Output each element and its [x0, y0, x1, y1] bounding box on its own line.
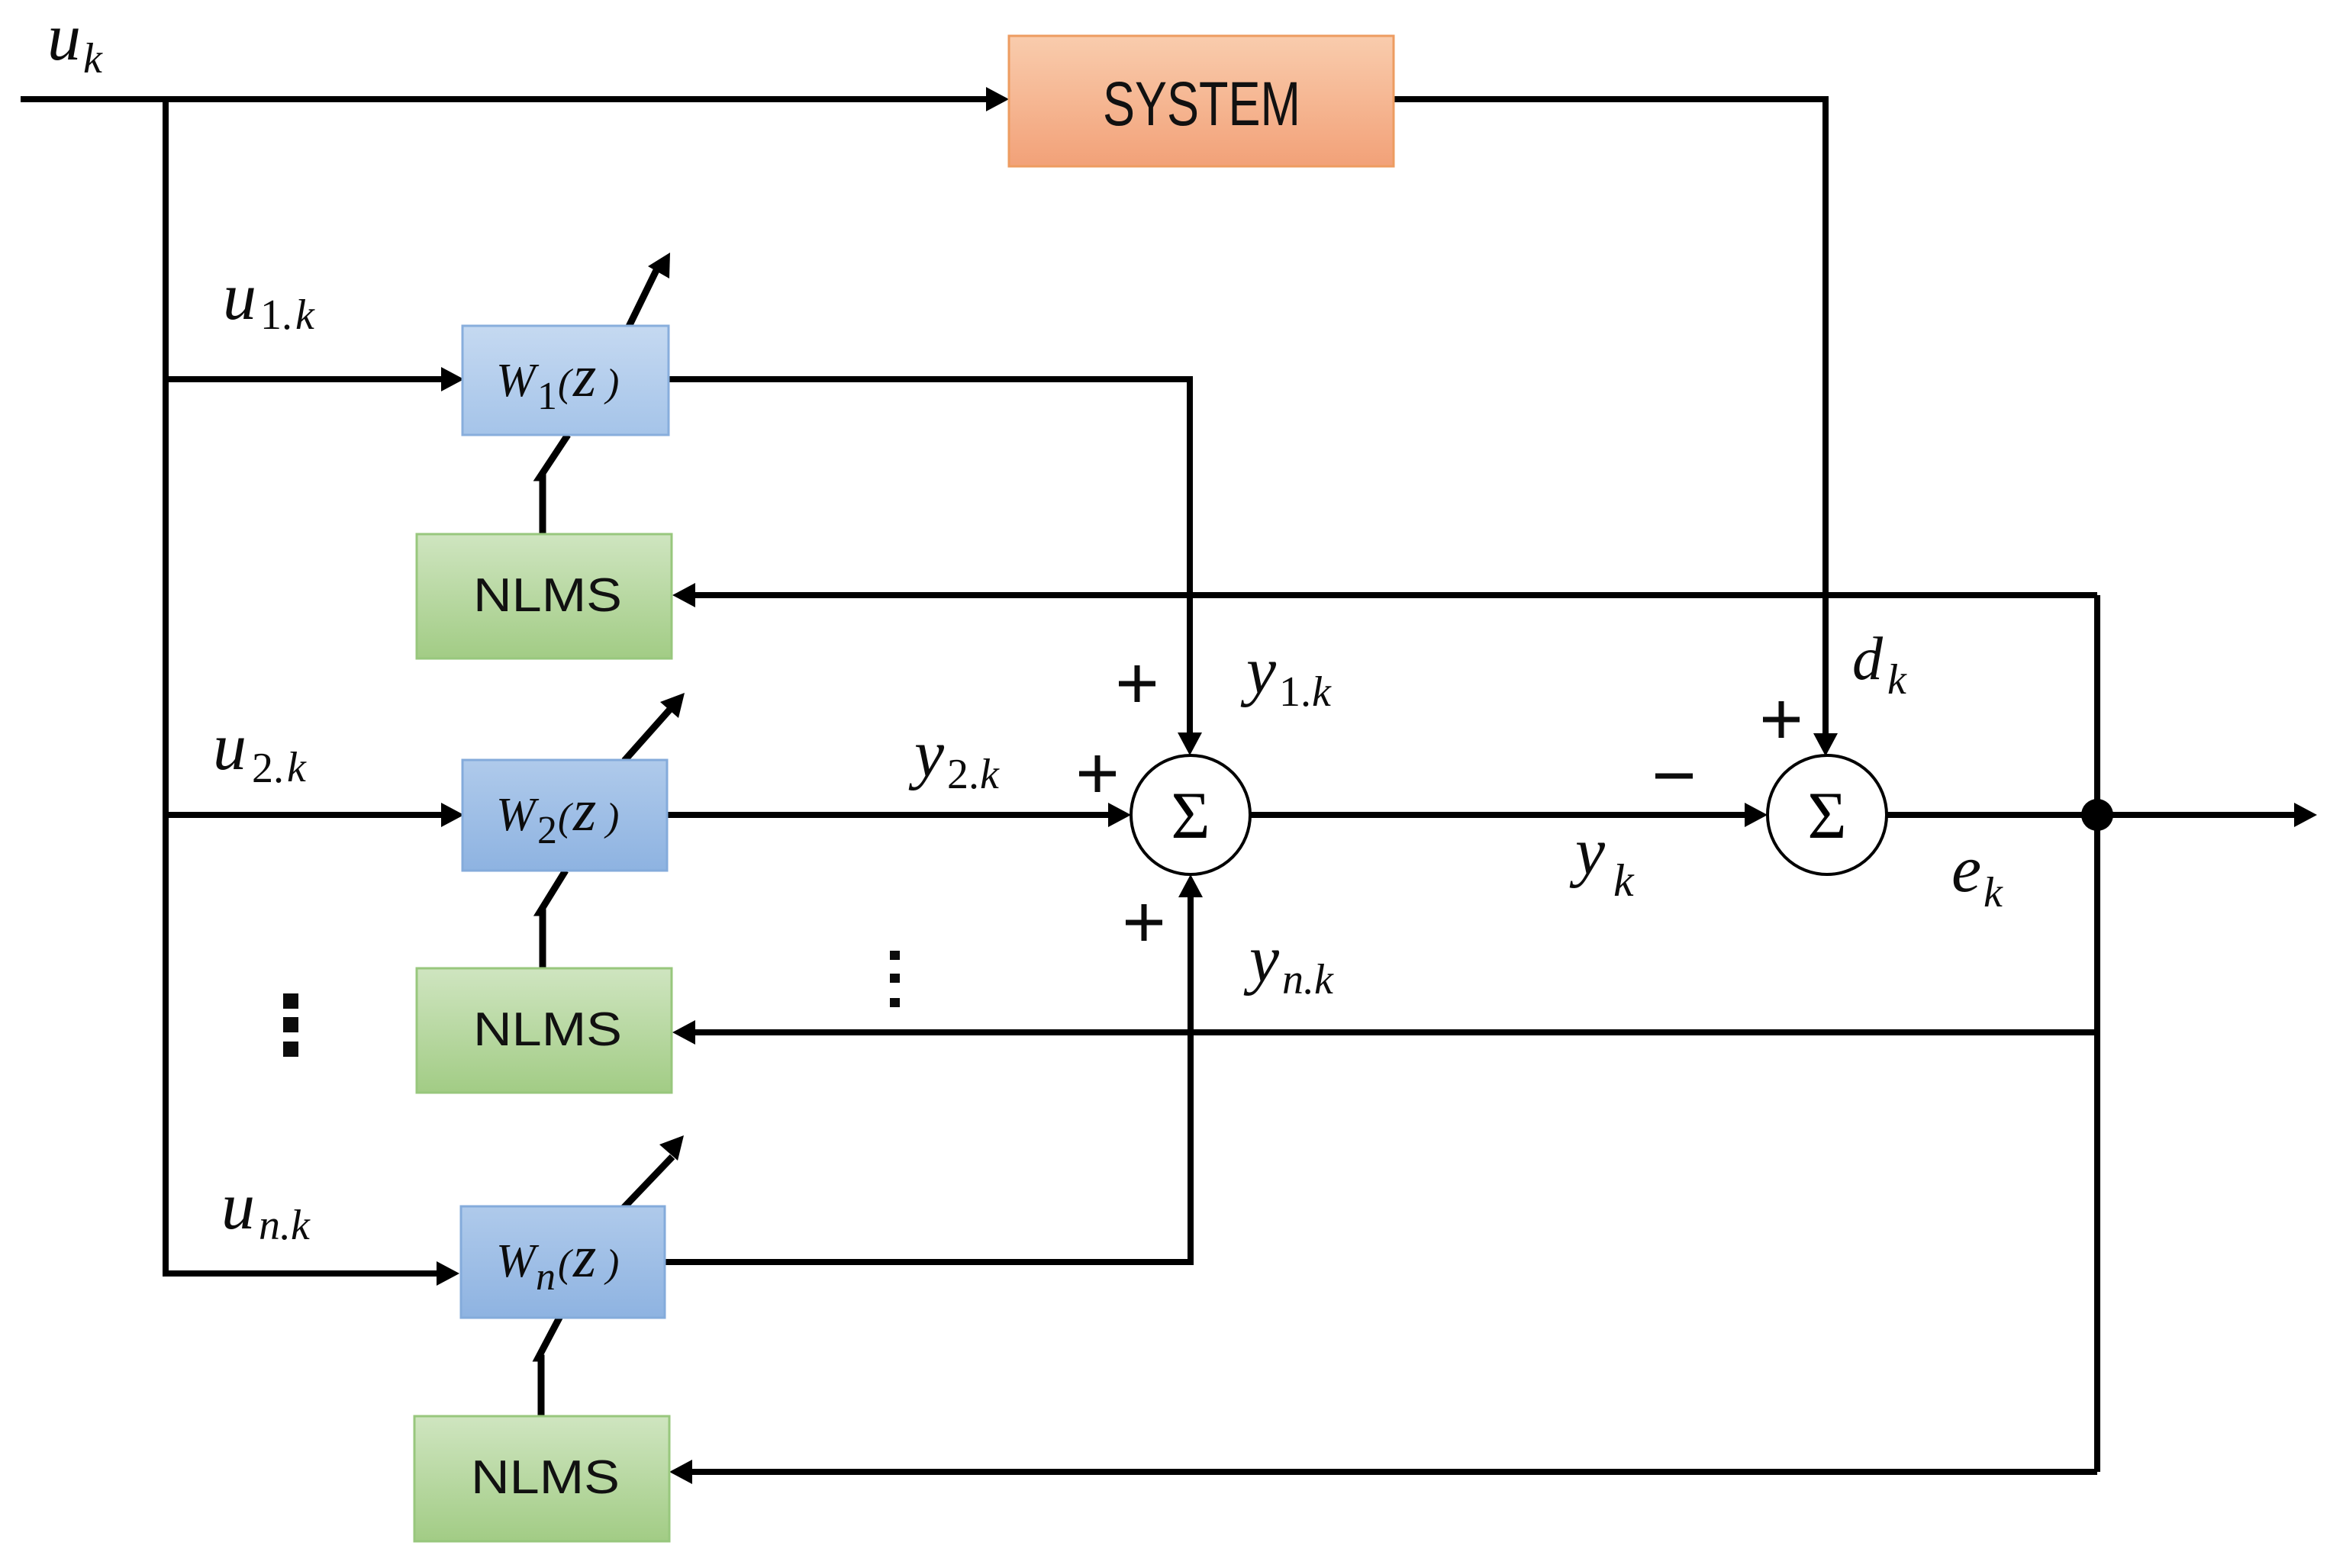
wire u_k main horizontal into SYSTEM: [21, 96, 989, 102]
svg-text:1: 1: [537, 375, 557, 418]
svg-text:y: y: [1240, 634, 1277, 708]
svg-text:): ): [604, 1242, 619, 1286]
block W1(z): [462, 326, 669, 435]
svg-text:y: y: [1243, 922, 1280, 997]
wire SYSTEM output d_k into sum S2 top: [1394, 99, 1826, 736]
svg-text:u: u: [47, 1, 81, 75]
svg-text:W: W: [496, 789, 540, 841]
wire Wn output y_n.k into sum S1 bottom: [665, 894, 1191, 1262]
node u_k branch trunk vertical with corner to Wn: [166, 96, 440, 1273]
svg-text:W: W: [496, 1235, 540, 1287]
svg-text:Σ: Σ: [1807, 779, 1846, 853]
svg-text:1.: 1.: [1279, 668, 1311, 716]
wire branch u_2.k into W2: [166, 812, 444, 818]
node e_k junction dot: [2081, 799, 2113, 831]
ellipsis dots left: [283, 993, 298, 1057]
svg-text:k: k: [1984, 869, 2003, 916]
svg-text:2: 2: [537, 809, 557, 852]
wire NLMS2 to W2 adjust connector: [540, 871, 566, 970]
svg-text:W: W: [496, 355, 540, 407]
svg-text:n.k: n.k: [259, 1202, 311, 1249]
svg-text:u: u: [221, 1170, 255, 1244]
svg-text:k: k: [1887, 656, 1907, 704]
svg-text:k: k: [980, 751, 1000, 798]
wire W1 output y_1.k into sum S1 top: [669, 379, 1190, 736]
svg-text:k: k: [1312, 668, 1332, 716]
svg-text:(: (: [558, 796, 573, 839]
block SYSTEM: [1009, 36, 1394, 166]
block Wn(z): [461, 1206, 665, 1318]
svg-text:k: k: [295, 291, 315, 339]
block W2(z): [462, 760, 667, 871]
svg-text:k: k: [287, 744, 307, 791]
block NLMS3: [414, 1416, 669, 1541]
adaptation arrow Wn: [624, 1157, 672, 1208]
svg-text:k: k: [83, 35, 103, 82]
svg-text:u: u: [213, 710, 247, 784]
wire feedback to NLMS1: [692, 592, 2097, 598]
svg-text:y: y: [1569, 815, 1606, 889]
svg-text:k: k: [1613, 855, 1635, 906]
svg-text:(: (: [558, 362, 573, 405]
svg-text:z: z: [572, 777, 596, 843]
svg-text:): ): [604, 362, 619, 405]
svg-text:2.: 2.: [252, 745, 284, 792]
adaptation arrow W2: [624, 706, 673, 761]
svg-text:d: d: [1852, 626, 1884, 693]
wire feedback to NLMS2: [692, 1029, 2097, 1035]
wire sum S1 output y_k into sum S2 left: [1250, 812, 1748, 818]
wire feedback to NLMS3: [689, 1469, 2097, 1475]
svg-text:2.: 2.: [947, 751, 979, 798]
svg-text:u: u: [223, 260, 256, 334]
svg-text:NLMS: NLMS: [471, 1451, 620, 1504]
plus sign at S1 left input: [1079, 755, 1116, 792]
wire NLMS3 to Wn adjust connector: [538, 1316, 560, 1417]
plus sign at S2 top input: [1763, 701, 1800, 738]
svg-text:e: e: [1951, 832, 1981, 906]
svg-text:z: z: [572, 343, 596, 409]
svg-text:(: (: [558, 1242, 573, 1286]
wire NLMS1 to W1 adjust connector: [540, 435, 568, 536]
plus sign at S1 bottom input: [1126, 904, 1162, 941]
block NLMS2: [417, 968, 672, 1093]
svg-text:n.k: n.k: [1282, 956, 1334, 1003]
svg-text:Σ: Σ: [1171, 779, 1210, 853]
wire branch u_1.k into W1: [166, 376, 444, 382]
svg-text:NLMS: NLMS: [473, 569, 622, 622]
plus sign at S1 top input: [1119, 665, 1155, 702]
sum S2: [1768, 755, 1887, 874]
svg-text:1.: 1.: [260, 291, 292, 339]
ellipsis dots middle: [890, 951, 900, 1007]
block NLMS1: [417, 534, 672, 658]
svg-text:z: z: [572, 1223, 596, 1289]
svg-text:n: n: [536, 1255, 556, 1299]
wire W2 output y_2.k into sum S1 left: [667, 812, 1111, 818]
minus sign at S2 left input: [1655, 774, 1693, 779]
wire e_k output from sum S2 to right edge: [1887, 812, 2297, 818]
svg-text:y: y: [908, 717, 945, 791]
wire feedback vertical at e_k node: [2094, 595, 2100, 1472]
sum S1: [1131, 755, 1250, 874]
svg-text:): ): [604, 796, 619, 839]
svg-text:SYSTEM: SYSTEM: [1103, 69, 1300, 139]
svg-text:NLMS: NLMS: [473, 1003, 622, 1056]
adaptation arrow W1: [627, 264, 659, 330]
